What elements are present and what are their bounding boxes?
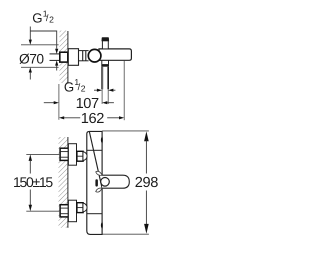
svg-text:G: G	[32, 11, 42, 26]
dimension 150±15 extension lines	[26, 154, 60, 211]
leader from G1/2 to escutcheon (vertical with down arrow)	[29, 27, 32, 45]
dimension Ø70 extension lines	[21, 45, 59, 68]
diverter knob stem	[102, 41, 108, 49]
svg-text:2: 2	[81, 83, 86, 93]
G1/2 pointer arrows at nipple	[94, 89, 115, 92]
mixer mounting flange (top view)	[68, 49, 78, 66]
dimension 162	[59, 111, 124, 127]
diverter knob cap (dark)	[102, 37, 110, 41]
neck between flange and knob	[79, 51, 89, 61]
svg-text:107: 107	[76, 96, 99, 112]
svg-text:2: 2	[49, 15, 54, 25]
svg-text:298: 298	[135, 175, 158, 191]
svg-text:150±15: 150±15	[13, 174, 53, 190]
supply pipe stub in wall	[50, 54, 60, 61]
union 1: ball joint	[83, 152, 87, 161]
union 1: escutcheon	[68, 144, 76, 166]
mixer body (top view)	[99, 49, 131, 60]
handle notch crescent (bottom)	[101, 222, 103, 230]
union 1: connection nut	[77, 151, 83, 161]
fin bottom	[96, 188, 102, 192]
mixer body (bottom view)	[87, 131, 102, 234]
dimension Ø70 lower arrow (up)	[29, 67, 32, 79]
fin top	[96, 171, 102, 175]
body step line (top cap)	[87, 149, 102, 151]
svg-text:Ø70: Ø70	[19, 51, 44, 66]
dimension 298 extension lines	[102, 131, 149, 234]
body step line (bottom cap)	[87, 213, 102, 215]
leader branch from G1/2 to pipe thread (bent, down arrow)	[30, 31, 58, 54]
spout circle	[101, 178, 110, 187]
spout capsule (front)	[102, 175, 129, 188]
union 2: wall nut	[60, 205, 68, 217]
union 1: wall nut	[60, 148, 68, 160]
dimension 107	[44, 96, 114, 112]
label G1/2 (top)	[32, 8, 54, 25]
shower hose nipple below body	[101, 60, 109, 89]
handle front extension line (for 162)	[123, 61, 125, 121]
wall face extension line (for 107/162)	[58, 84, 60, 120]
thermostat knob circle (top view)	[88, 49, 101, 62]
temperature mark (dark dash)	[95, 179, 98, 186]
wall union box (top view)	[60, 52, 68, 62]
pipe thread lower arrow (up) on leader line	[55, 60, 58, 70]
union 2: ball joint	[83, 203, 87, 212]
svg-text:G: G	[64, 79, 74, 94]
label G1/2 (hose thread)	[64, 77, 86, 94]
wall hatch (top view)	[60, 31, 69, 84]
handle notch crescent (top)	[101, 136, 103, 144]
dimension 298 line and arrows	[144, 131, 149, 233]
union 2: connection nut	[77, 203, 83, 213]
svg-text:162: 162	[81, 111, 104, 127]
nipple extension lines down to dimensions	[102, 89, 108, 104]
wall hatch (bottom view)	[59, 137, 68, 228]
dimension 150±15 line and arrows	[29, 154, 32, 211]
union 2: escutcheon	[68, 200, 76, 222]
